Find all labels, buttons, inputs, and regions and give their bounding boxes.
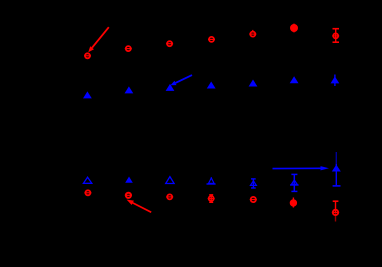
top blue triangle t6 — [290, 76, 299, 83]
bottom blue triangle b2 — [125, 177, 133, 183]
top red circle c5 — [249, 30, 256, 37]
red annotation arrow (top-left, points to first red circle) — [88, 27, 109, 52]
blue annotation arrow (top, points to third blue triangle) — [171, 75, 193, 85]
top red circle c3 — [166, 41, 173, 46]
bottom red circle r1 — [84, 190, 91, 195]
top red circle c7 with vertical error bar — [332, 29, 339, 43]
top blue triangle t3 — [166, 84, 175, 91]
bottom blue triangle b4 (open, with error bars) — [207, 177, 216, 184]
red annotation arrow (bottom, points to second bottom red circle) — [127, 200, 152, 213]
bottom blue triangle b5 (open, with vertical error bar) — [250, 179, 256, 188]
top blue triangle t7 with small vertical error bar — [331, 75, 340, 87]
bottom red circle r2 — [125, 193, 132, 198]
bottom blue triangle b1 (open) — [83, 177, 91, 183]
bottom red circle r3 — [166, 194, 173, 199]
top red circle c6 — [291, 24, 298, 33]
top blue triangle t5 — [249, 80, 258, 87]
top blue triangle t4 — [207, 82, 216, 89]
bottom blue triangle b6 (open, with error bars) — [290, 174, 299, 191]
top blue triangle t1 — [83, 91, 92, 98]
top red circle c4 — [208, 37, 215, 42]
bottom red circle r7 (with vertical error bar) — [332, 201, 339, 221]
top red circle c1 — [84, 53, 91, 58]
blue annotation arrow (bottom, horizontal, points to last bottom blue triangle) — [273, 166, 330, 170]
top red circle c2 — [125, 46, 132, 51]
bottom red circle r6 (with vertical error bar) — [291, 198, 297, 208]
top blue triangle t2 — [125, 86, 134, 93]
bottom blue triangle b7 (filled, with long vertical error bar) — [332, 152, 341, 186]
bottom red circle r5 — [250, 197, 257, 202]
bottom red circle r4 (with vertical error bar) — [208, 195, 215, 203]
bottom blue triangle b3 (open) — [166, 177, 174, 184]
